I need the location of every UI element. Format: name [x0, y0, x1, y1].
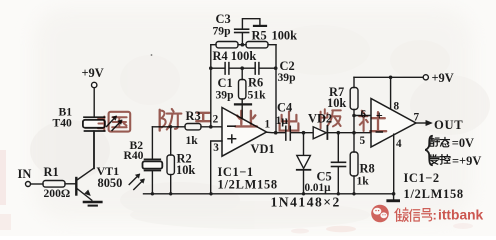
svg-text:0.01μ: 0.01μ: [305, 182, 332, 194]
svg-text:VD1: VD1: [251, 142, 275, 156]
svg-text:1: 1: [265, 119, 271, 131]
svg-text:ittbank: ittbank: [438, 208, 484, 223]
svg-text:R6: R6: [248, 76, 263, 90]
svg-text:2: 2: [213, 114, 219, 126]
svg-text:OUT: OUT: [434, 118, 463, 132]
svg-text:39p: 39p: [278, 71, 296, 84]
svg-text::: :: [433, 208, 437, 223]
svg-text:200Ω: 200Ω: [44, 187, 71, 200]
svg-text:T40: T40: [53, 117, 73, 130]
svg-text:1/2LM158: 1/2LM158: [218, 178, 278, 192]
svg-text:3: 3: [213, 142, 219, 154]
svg-text:8: 8: [394, 101, 400, 113]
svg-text:IC1−2: IC1−2: [404, 171, 440, 185]
svg-text:10k: 10k: [327, 96, 346, 110]
svg-text:100k: 100k: [272, 29, 298, 43]
svg-text:7: 7: [414, 112, 420, 124]
svg-text:1/2LM158: 1/2LM158: [404, 187, 464, 201]
svg-text:+9V: +9V: [82, 66, 104, 80]
svg-text:4: 4: [396, 138, 402, 150]
svg-text:R8: R8: [360, 162, 375, 176]
svg-text:79p: 79p: [213, 25, 231, 38]
svg-text:R1: R1: [44, 165, 59, 179]
svg-text:R4 100k: R4 100k: [213, 49, 257, 63]
svg-text:1N4148×2: 1N4148×2: [271, 195, 341, 210]
svg-text:51k: 51k: [248, 89, 267, 102]
svg-text:10k: 10k: [176, 163, 195, 177]
svg-text:R5: R5: [252, 29, 267, 43]
svg-text:39p: 39p: [216, 89, 234, 102]
svg-text:+9V: +9V: [432, 71, 454, 85]
svg-text:5: 5: [360, 135, 366, 147]
svg-text:1k: 1k: [186, 134, 199, 147]
svg-text:IN: IN: [18, 167, 32, 181]
svg-text:8050: 8050: [98, 176, 123, 190]
svg-text:1k: 1k: [357, 175, 370, 188]
svg-text:R40: R40: [124, 149, 144, 162]
svg-text:=0V: =0V: [452, 136, 474, 150]
svg-text:=+9V: =+9V: [452, 154, 481, 168]
